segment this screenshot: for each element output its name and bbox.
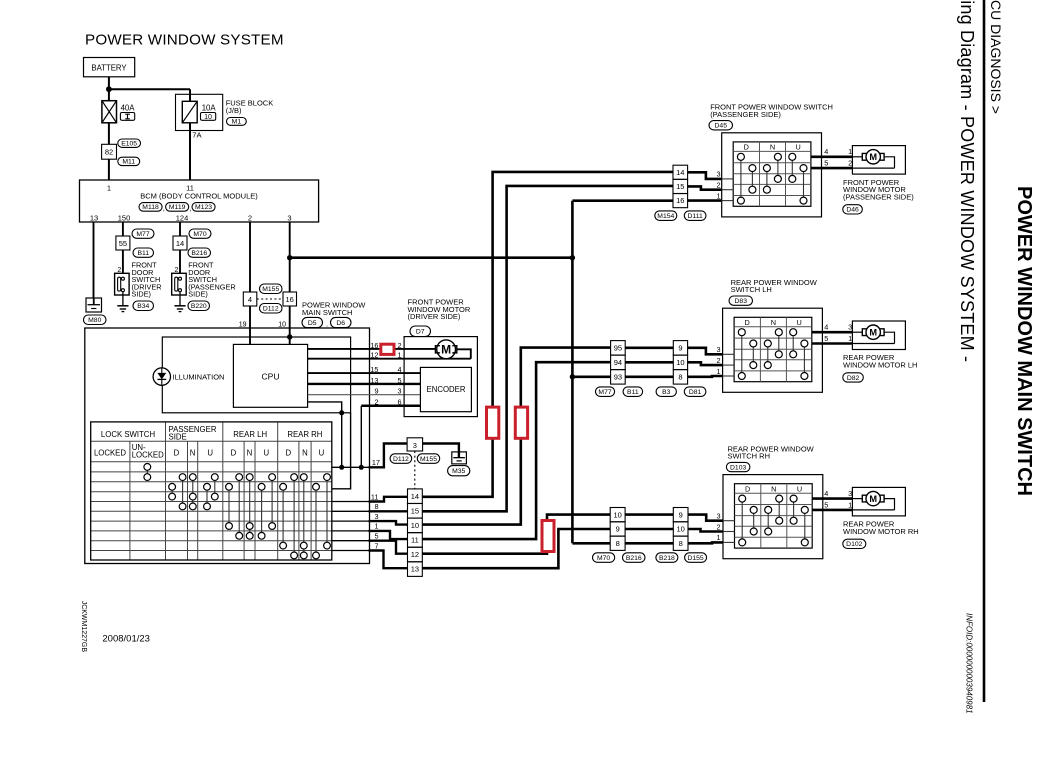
svg-text:150: 150 xyxy=(118,214,131,223)
svg-text:D111: D111 xyxy=(688,213,703,220)
svg-text:12: 12 xyxy=(411,550,419,559)
svg-text:N: N xyxy=(302,448,308,457)
svg-text:D83: D83 xyxy=(735,298,748,305)
svg-text:D46: D46 xyxy=(846,207,859,214)
svg-text:,: , xyxy=(189,204,191,213)
svg-text:93: 93 xyxy=(614,372,622,381)
svg-text:11: 11 xyxy=(371,492,379,501)
svg-text:10: 10 xyxy=(613,510,621,519)
svg-text:M: M xyxy=(869,494,877,504)
svg-text:D5: D5 xyxy=(308,320,317,327)
svg-text:M: M xyxy=(869,152,877,162)
svg-text:D45: D45 xyxy=(715,123,728,130)
svg-text:15: 15 xyxy=(676,182,684,191)
svg-text:3: 3 xyxy=(374,512,378,521)
svg-text:D7: D7 xyxy=(416,329,425,336)
svg-text:14: 14 xyxy=(411,492,419,501)
svg-text:N: N xyxy=(770,143,775,152)
svg-text:8: 8 xyxy=(678,372,682,381)
svg-text:11: 11 xyxy=(411,536,419,545)
svg-text:M80: M80 xyxy=(88,317,101,324)
svg-text:3: 3 xyxy=(413,441,417,450)
svg-text:5: 5 xyxy=(824,501,828,510)
svg-text:B11: B11 xyxy=(137,250,149,257)
svg-text:1: 1 xyxy=(107,184,111,193)
svg-text:94: 94 xyxy=(614,358,622,367)
svg-text:M1: M1 xyxy=(232,119,242,126)
svg-text:8: 8 xyxy=(616,539,620,548)
svg-text:JCKWM1227GB: JCKWM1227GB xyxy=(80,601,87,653)
svg-text:B216: B216 xyxy=(626,555,642,562)
svg-text:1: 1 xyxy=(848,147,852,156)
svg-text:1: 1 xyxy=(716,191,720,200)
svg-text:17: 17 xyxy=(372,458,380,467)
svg-text:D102: D102 xyxy=(846,541,862,548)
svg-text:D155: D155 xyxy=(687,555,703,562)
svg-text:D: D xyxy=(231,448,237,457)
svg-text:B216: B216 xyxy=(191,250,207,257)
svg-text:5: 5 xyxy=(824,334,828,343)
svg-text:(PASSENGER SIDE): (PASSENGER SIDE) xyxy=(843,192,914,201)
svg-text:BCM (BODY CONTROL MODULE): BCM (BODY CONTROL MODULE) xyxy=(140,192,258,201)
svg-text:SIDE): SIDE) xyxy=(132,290,151,299)
svg-text:6: 6 xyxy=(397,398,401,407)
svg-text:7: 7 xyxy=(374,541,378,550)
svg-text:4: 4 xyxy=(824,323,828,332)
svg-text:POWER WINDOW MAIN SWITCH: POWER WINDOW MAIN SWITCH xyxy=(1013,186,1035,496)
svg-text:2008/01/23: 2008/01/23 xyxy=(102,634,150,645)
svg-text:CPU: CPU xyxy=(262,372,280,382)
svg-text:5: 5 xyxy=(397,376,401,385)
svg-text:8: 8 xyxy=(679,539,683,548)
svg-text:10: 10 xyxy=(411,521,419,530)
svg-text:10: 10 xyxy=(676,525,684,534)
svg-text:2: 2 xyxy=(848,159,852,168)
svg-text:BATTERY: BATTERY xyxy=(91,64,127,73)
svg-text:B220: B220 xyxy=(191,303,207,310)
svg-text:D82: D82 xyxy=(847,375,860,382)
svg-text:M155: M155 xyxy=(420,456,437,463)
svg-text:SWITCH RH: SWITCH RH xyxy=(728,452,771,461)
svg-text:REAR LH: REAR LH xyxy=(233,430,267,439)
svg-text:SIDE: SIDE xyxy=(169,432,187,441)
svg-text:LOCKED: LOCKED xyxy=(94,448,126,457)
svg-text:M77: M77 xyxy=(136,231,149,238)
svg-text:3: 3 xyxy=(848,323,852,332)
svg-text:2: 2 xyxy=(397,341,401,350)
svg-text:B34: B34 xyxy=(137,303,149,310)
svg-text:LOCK SWITCH: LOCK SWITCH xyxy=(101,430,155,439)
svg-text:12: 12 xyxy=(370,351,378,360)
svg-text:B3: B3 xyxy=(662,389,671,396)
svg-text:CU DIAGNOSIS >: CU DIAGNOSIS > xyxy=(988,0,1004,114)
svg-text:B218: B218 xyxy=(659,555,675,562)
svg-text:2: 2 xyxy=(716,356,720,365)
svg-text:13: 13 xyxy=(90,214,98,223)
svg-text:55: 55 xyxy=(119,239,127,248)
svg-text:1: 1 xyxy=(848,334,852,343)
svg-text:3: 3 xyxy=(716,345,720,354)
svg-text:8: 8 xyxy=(374,502,378,511)
svg-text:LOCKED: LOCKED xyxy=(132,451,164,460)
svg-text:N: N xyxy=(771,318,776,327)
svg-text:M123: M123 xyxy=(195,204,212,211)
svg-text:(PASSENGER SIDE): (PASSENGER SIDE) xyxy=(710,110,781,119)
svg-text:3: 3 xyxy=(397,387,401,396)
svg-text:U: U xyxy=(796,318,801,327)
svg-text:U: U xyxy=(797,485,802,494)
svg-text:15: 15 xyxy=(411,506,419,515)
svg-text:1: 1 xyxy=(397,351,401,360)
svg-text:5: 5 xyxy=(374,532,378,541)
svg-text:9: 9 xyxy=(374,387,378,396)
svg-text:M11: M11 xyxy=(122,159,135,166)
svg-text:M: M xyxy=(441,343,451,357)
svg-text:10: 10 xyxy=(676,358,684,367)
svg-text:D81: D81 xyxy=(689,389,702,396)
svg-text:D: D xyxy=(174,448,180,457)
svg-text:N: N xyxy=(247,448,253,457)
svg-text:E105: E105 xyxy=(121,141,137,148)
svg-text:3: 3 xyxy=(848,489,852,498)
svg-text:WINDOW MOTOR LH: WINDOW MOTOR LH xyxy=(843,361,917,370)
svg-text:7A: 7A xyxy=(192,131,201,140)
svg-text:1: 1 xyxy=(848,501,852,510)
svg-text:(DRIVER SIDE): (DRIVER SIDE) xyxy=(408,312,461,321)
svg-text:1: 1 xyxy=(716,367,720,376)
svg-text:124: 124 xyxy=(176,214,189,223)
svg-text:ring Diagram - POWER WINDOW SY: ring Diagram - POWER WINDOW SYSTEM - xyxy=(957,0,977,362)
svg-text:U: U xyxy=(263,448,269,457)
svg-text:M155: M155 xyxy=(262,286,279,293)
svg-text:B11: B11 xyxy=(627,389,639,396)
svg-text:M118: M118 xyxy=(142,204,159,211)
svg-text:16: 16 xyxy=(370,341,378,350)
svg-text:4: 4 xyxy=(397,365,401,374)
svg-text:4: 4 xyxy=(248,295,252,304)
svg-text:9: 9 xyxy=(678,343,682,352)
svg-text:REAR RH: REAR RH xyxy=(287,430,322,439)
svg-text:U: U xyxy=(796,143,801,152)
svg-text:INFOID:0000000003940981: INFOID:0000000003940981 xyxy=(965,613,974,714)
svg-text:N: N xyxy=(771,485,776,494)
svg-text:5: 5 xyxy=(824,159,828,168)
svg-text:D112: D112 xyxy=(263,306,279,313)
svg-text:16: 16 xyxy=(286,295,294,304)
svg-text:M70: M70 xyxy=(193,231,206,238)
svg-text:MAIN SWITCH: MAIN SWITCH xyxy=(302,308,352,317)
svg-text:15: 15 xyxy=(370,365,378,374)
svg-text:.: . xyxy=(326,320,328,329)
svg-text:,: , xyxy=(163,204,165,213)
svg-text:D: D xyxy=(745,318,750,327)
svg-text:U: U xyxy=(319,448,325,457)
svg-text:M119: M119 xyxy=(169,204,186,211)
svg-text:95: 95 xyxy=(614,343,622,352)
svg-text:10A: 10A xyxy=(202,103,217,112)
svg-text:2: 2 xyxy=(716,181,720,190)
svg-text:ILLUMINATION: ILLUMINATION xyxy=(173,372,225,381)
svg-text:U: U xyxy=(207,448,213,457)
svg-text:14: 14 xyxy=(676,168,684,177)
svg-text:3: 3 xyxy=(716,170,720,179)
svg-text:13: 13 xyxy=(370,376,378,385)
svg-text:M154: M154 xyxy=(657,213,674,220)
svg-text:10: 10 xyxy=(204,114,212,121)
svg-text:WINDOW MOTOR RH: WINDOW MOTOR RH xyxy=(843,527,919,536)
svg-text:D: D xyxy=(745,485,750,494)
svg-text:2: 2 xyxy=(374,398,378,407)
svg-text:16: 16 xyxy=(676,196,684,205)
svg-text:M35: M35 xyxy=(452,468,465,475)
svg-text:2: 2 xyxy=(716,522,720,531)
svg-text:SWITCH LH: SWITCH LH xyxy=(731,285,772,294)
svg-text:9: 9 xyxy=(679,510,683,519)
svg-text:D112: D112 xyxy=(393,456,409,463)
svg-text:(J/B): (J/B) xyxy=(226,106,242,115)
svg-text:3: 3 xyxy=(287,214,291,223)
svg-text:D6: D6 xyxy=(336,320,345,327)
svg-text:M: M xyxy=(869,327,877,337)
svg-text:4: 4 xyxy=(824,489,828,498)
svg-text:1: 1 xyxy=(374,522,378,531)
svg-text:82: 82 xyxy=(105,148,113,157)
svg-text:M77: M77 xyxy=(598,389,611,396)
svg-text:13: 13 xyxy=(411,565,419,574)
svg-text:2: 2 xyxy=(248,214,252,223)
svg-text:40A: 40A xyxy=(121,103,136,112)
svg-text:SIDE): SIDE) xyxy=(188,290,207,299)
svg-text:4: 4 xyxy=(824,147,828,156)
svg-text:D103: D103 xyxy=(730,464,746,471)
svg-text:M70: M70 xyxy=(597,555,610,562)
svg-text:3: 3 xyxy=(716,512,720,521)
svg-text:14: 14 xyxy=(176,239,184,248)
svg-text:ENCODER: ENCODER xyxy=(427,385,466,394)
svg-text:1: 1 xyxy=(716,533,720,542)
svg-text:D: D xyxy=(744,143,749,152)
svg-text:POWER WINDOW SYSTEM: POWER WINDOW SYSTEM xyxy=(85,32,284,49)
svg-text:D: D xyxy=(285,448,291,457)
svg-text:9: 9 xyxy=(616,525,620,534)
svg-text:N: N xyxy=(190,448,196,457)
